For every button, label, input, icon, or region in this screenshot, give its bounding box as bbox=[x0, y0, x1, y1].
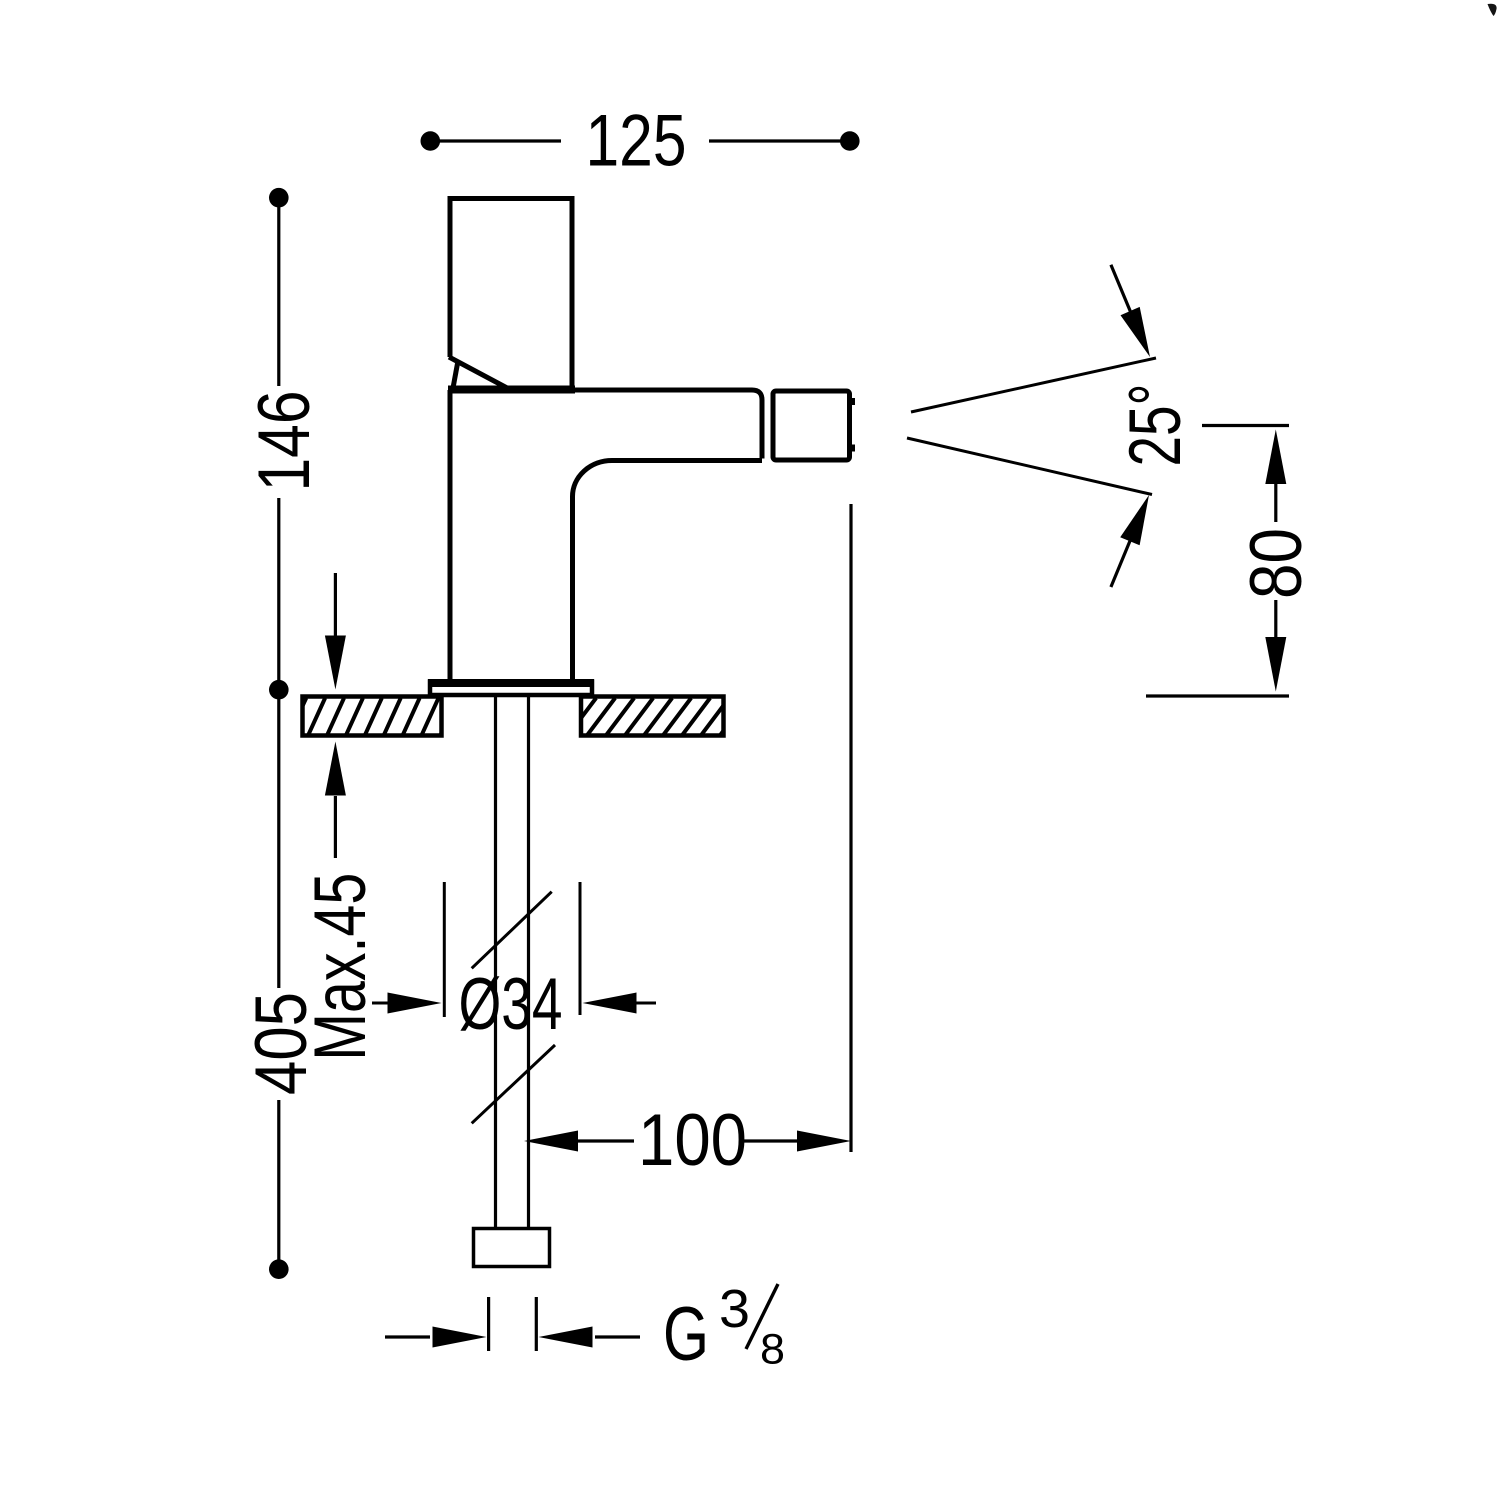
svg-text:80: 80 bbox=[1236, 528, 1317, 599]
angle leader arrow lower bbox=[1111, 536, 1132, 587]
dimension 80 (right vertical) bbox=[1146, 426, 1289, 697]
svg-text:125: 125 bbox=[586, 101, 687, 182]
dimension G 3/8 (thread) bbox=[385, 1297, 640, 1351]
stray corner mark top-right bbox=[1488, 4, 1497, 16]
angle 25 degrees: lower ray bbox=[907, 438, 1152, 495]
svg-text:25°: 25° bbox=[1115, 384, 1196, 467]
svg-text:Ø34: Ø34 bbox=[459, 964, 563, 1045]
fraction slash bbox=[746, 1284, 778, 1349]
aerator tip bbox=[773, 391, 850, 460]
countertop deck left (hatched) bbox=[287, 698, 476, 740]
pipe break slash lower bbox=[472, 1045, 555, 1123]
base flange bbox=[430, 682, 592, 696]
dimension 146 (left vertical) bbox=[269, 188, 289, 700]
faucet spout and body column bbox=[448, 390, 762, 682]
svg-text:146: 146 bbox=[244, 391, 325, 492]
supply pipe bbox=[496, 697, 529, 1228]
angle 25 degrees: upper ray bbox=[911, 358, 1156, 412]
faucet handle (lever body) bbox=[449, 199, 572, 391]
svg-text:3: 3 bbox=[719, 1279, 750, 1339]
dimension 125 (top) bbox=[421, 131, 860, 151]
dimension Max.45 (deck thickness) bbox=[334, 573, 337, 858]
angle leader arrow upper bbox=[1111, 265, 1133, 318]
svg-text:8: 8 bbox=[760, 1326, 785, 1374]
connection nut bbox=[474, 1229, 550, 1267]
svg-text:100: 100 bbox=[638, 1100, 747, 1181]
svg-text:Max.45: Max.45 bbox=[300, 873, 381, 1061]
dimension 100 bbox=[578, 504, 851, 1152]
countertop deck right (hatched) bbox=[546, 698, 768, 740]
pipe break slash upper bbox=[472, 892, 552, 969]
svg-text:G: G bbox=[663, 1292, 709, 1377]
dimension diameter 34 bbox=[372, 882, 656, 1017]
dimension 405 (left vertical) bbox=[269, 698, 289, 1279]
